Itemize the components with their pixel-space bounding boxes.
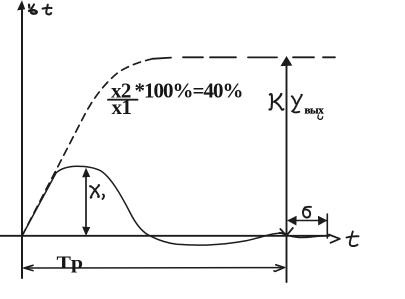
label K (269, 94, 272, 109)
label t (axis) (350, 232, 358, 247)
y-axis arrowhead (18, 1, 25, 10)
svg-text:Tp: Tp (57, 253, 84, 273)
label X1 (90, 186, 99, 197)
label y_out (292, 96, 296, 103)
delta tolerance arrow (289, 220, 326, 222)
solid response curve (22, 166, 325, 245)
svg-text:*100%=40%: *100%=40% (135, 79, 243, 103)
Tp measure arrow (25, 267, 284, 269)
X1 measure arrow (vertical double arrow) (85, 171, 87, 233)
y-axis (21, 4, 23, 278)
axis label y (28, 5, 30, 8)
axis label t (46, 5, 51, 15)
dashed transfer curve (rise) (22, 59, 151, 236)
delta right tick (326, 214, 328, 238)
svg-text:вых: вых (305, 105, 325, 117)
label delta (303, 207, 311, 218)
dashed steady-state level line (152, 57, 335, 59)
t-axis arrowhead (329, 235, 340, 243)
steady-state measure line (K / y_out vertical double arrow) (286, 60, 288, 282)
svg-text:x1: x1 (112, 95, 132, 119)
x-axis (t axis) (0, 235, 329, 237)
